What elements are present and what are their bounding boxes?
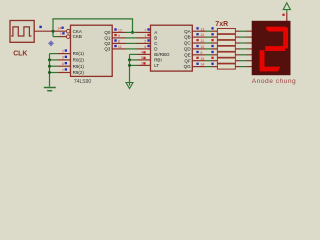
svg-text:LT: LT bbox=[154, 63, 159, 68]
svg-text:9: 9 bbox=[200, 51, 202, 55]
resistor R3 input state square (high) bbox=[211, 39, 213, 41]
QA-QG pin numbers bbox=[200, 27, 204, 66]
svg-text:13: 13 bbox=[200, 27, 204, 31]
svg-text:QA: QA bbox=[184, 29, 191, 34]
row QC wire bbox=[192, 42, 205, 44]
pin 9 QE state square (low) bbox=[196, 51, 198, 53]
pin C state square (low) bbox=[147, 39, 149, 41]
resistor R1 bbox=[217, 29, 235, 34]
CKA clock bubble bbox=[66, 29, 70, 33]
svg-text:R9(2): R9(2) bbox=[73, 70, 85, 75]
svg-text:Q0: Q0 bbox=[104, 30, 111, 35]
svg-text:6: 6 bbox=[144, 45, 146, 49]
svg-text:14: 14 bbox=[57, 27, 61, 31]
pin 6 state square bbox=[65, 62, 67, 64]
segment a bbox=[266, 27, 286, 32]
junction at clock wire bbox=[52, 30, 55, 33]
wire RBI bbox=[130, 59, 138, 61]
U2 pin labels right bbox=[184, 29, 192, 69]
svg-text:7: 7 bbox=[144, 29, 146, 33]
pin 11 state square (low) bbox=[114, 45, 116, 47]
wire R0(1) bbox=[50, 53, 59, 55]
resistor R6 input state square (high) bbox=[211, 57, 213, 59]
U2 74LS47 body bbox=[151, 25, 193, 71]
wire clock to CKA bbox=[34, 30, 66, 32]
pin 1 state square bbox=[62, 32, 64, 34]
svg-text:8: 8 bbox=[118, 40, 120, 44]
svg-text:11: 11 bbox=[200, 39, 204, 43]
power arrow (down) for BI/RBI/LT bbox=[126, 83, 133, 89]
row QA wire bbox=[192, 30, 205, 32]
U1 pin labels right bbox=[104, 30, 111, 52]
resistor R7 input state square (low) bbox=[211, 63, 213, 65]
ground symbol bbox=[44, 88, 56, 91]
wire Q2 to C bbox=[112, 42, 125, 44]
resistor R7 bbox=[217, 64, 235, 69]
svg-text:11: 11 bbox=[118, 45, 122, 49]
pin A state square (low) bbox=[147, 28, 149, 30]
pin 15 QF state square (high) bbox=[196, 57, 198, 59]
row QE wire bbox=[192, 54, 205, 56]
svg-text:10: 10 bbox=[200, 45, 204, 49]
svg-text:74LS90: 74LS90 bbox=[74, 79, 91, 85]
svg-text:QD: QD bbox=[184, 47, 192, 52]
svg-text:QG: QG bbox=[184, 64, 192, 69]
svg-text:R0(1): R0(1) bbox=[73, 51, 85, 56]
svg-text:A: A bbox=[154, 30, 157, 35]
wire top horizontal bbox=[52, 18, 133, 20]
U1 74LS90 body bbox=[71, 25, 113, 76]
pin numbers 12 9 8 11 bbox=[118, 29, 122, 50]
pin 2 state square bbox=[65, 49, 67, 51]
pin RBI state square (high) bbox=[143, 57, 145, 59]
svg-text:QF: QF bbox=[184, 58, 191, 63]
svg-text:15: 15 bbox=[200, 57, 204, 61]
svg-text:3: 3 bbox=[62, 56, 64, 60]
pin 14 state square bbox=[61, 27, 63, 29]
A-D pin numbers bbox=[144, 29, 146, 50]
junction RBI bbox=[128, 58, 131, 61]
svg-text:Q1: Q1 bbox=[104, 36, 111, 41]
svg-text:14: 14 bbox=[200, 63, 204, 67]
junction R0(2) bbox=[48, 58, 51, 61]
resistor R2 input state square (low) bbox=[211, 33, 213, 35]
segment d bbox=[261, 67, 280, 72]
resistor R3 bbox=[217, 40, 235, 45]
svg-text:12: 12 bbox=[200, 33, 204, 37]
segment e bbox=[260, 50, 265, 71]
svg-text:QE: QE bbox=[184, 52, 191, 57]
svg-text:2: 2 bbox=[144, 40, 146, 44]
wire down to Q0 node bbox=[132, 19, 134, 33]
svg-text:12: 12 bbox=[118, 29, 122, 33]
svg-text:QC: QC bbox=[184, 41, 192, 46]
row QG wire bbox=[192, 66, 205, 68]
svg-text:R9(1): R9(1) bbox=[73, 64, 85, 69]
junction at Q0 wire bbox=[131, 31, 134, 34]
resistor R1 input state square (low) bbox=[211, 27, 213, 29]
resistor R5 bbox=[217, 52, 235, 57]
pin 11 QC state square (high) bbox=[196, 39, 198, 41]
resistor R5 input state square (low) bbox=[211, 51, 213, 53]
svg-text:2: 2 bbox=[62, 49, 64, 53]
wire CKB stub bbox=[53, 36, 59, 38]
U1 pin labels left bbox=[73, 29, 85, 75]
junction R9(2) bbox=[48, 71, 51, 74]
wire CKB net green vertical bbox=[52, 19, 54, 37]
row QF wire bbox=[192, 60, 205, 62]
BI/RBO RBI LT power net vertical bbox=[129, 54, 131, 85]
wire R9(2) bbox=[50, 72, 59, 74]
pin 12 state square (low) bbox=[114, 28, 116, 30]
node origin diamond marker bbox=[49, 41, 54, 46]
7-segment display body bbox=[252, 21, 291, 75]
pin 12 QB state square (low) bbox=[196, 33, 198, 35]
pin 14 QG state square (low) bbox=[196, 63, 198, 65]
ground bus for R pins bbox=[49, 54, 51, 87]
wire R0(2) bbox=[50, 59, 59, 61]
svg-text:1: 1 bbox=[144, 34, 146, 38]
segment g bbox=[265, 46, 285, 51]
svg-text:7: 7 bbox=[62, 68, 64, 72]
resistor R6 bbox=[217, 58, 235, 63]
wire R9(1) bbox=[50, 65, 59, 67]
pin 3 state square bbox=[65, 56, 67, 58]
wire Q1 to B bbox=[112, 37, 125, 39]
CKB clock bubble bbox=[66, 35, 70, 39]
pin 7 state square bbox=[65, 68, 67, 70]
svg-text:BI/RBO: BI/RBO bbox=[154, 52, 170, 57]
clock terminal state square (blue) bbox=[39, 26, 41, 28]
svg-text:R0(2): R0(2) bbox=[73, 58, 85, 63]
wire Q0 to A bbox=[112, 31, 125, 33]
pin 10 QD state square (low) bbox=[196, 45, 198, 47]
resistor R4 input state square (low) bbox=[211, 45, 213, 47]
svg-text:RBI: RBI bbox=[154, 58, 162, 63]
power arrow (up) for display anode bbox=[283, 3, 290, 13]
pin BI/RBO state square (high) bbox=[143, 51, 145, 53]
svg-text:6: 6 bbox=[62, 62, 64, 66]
U2 pin labels left bbox=[154, 30, 170, 68]
row QD wire bbox=[192, 48, 205, 50]
svg-text:9: 9 bbox=[118, 34, 120, 38]
anode state square (high) bbox=[282, 14, 284, 16]
svg-text:B: B bbox=[154, 36, 157, 41]
svg-text:3: 3 bbox=[141, 62, 143, 66]
wire Q3 to D bbox=[112, 48, 125, 50]
svg-text:QB: QB bbox=[184, 35, 191, 40]
pin B state square (high) bbox=[147, 34, 149, 36]
clock generator CLK box bbox=[10, 21, 34, 43]
svg-text:CLK: CLK bbox=[13, 50, 27, 57]
svg-text:4: 4 bbox=[141, 51, 143, 55]
svg-text:Q2: Q2 bbox=[104, 41, 111, 46]
junction LT bbox=[128, 64, 131, 67]
resistor network rows QA-QG bbox=[192, 29, 252, 34]
svg-text:CKA: CKA bbox=[73, 29, 82, 34]
svg-text:7xR: 7xR bbox=[215, 21, 228, 28]
resistor R4 bbox=[217, 46, 235, 51]
svg-text:1: 1 bbox=[60, 32, 62, 36]
wire LT bbox=[130, 64, 138, 66]
pin 9 state square (high) bbox=[114, 34, 116, 36]
svg-text:5: 5 bbox=[141, 56, 143, 60]
svg-text:Anode chung: Anode chung bbox=[252, 78, 296, 85]
pin 8 state square (low) bbox=[114, 39, 116, 41]
pin D state square (low) bbox=[147, 45, 149, 47]
svg-text:CKB: CKB bbox=[73, 34, 82, 39]
pin 13 state square (low) bbox=[196, 27, 198, 29]
resistor R2 bbox=[217, 34, 235, 39]
row QB wire bbox=[192, 36, 205, 38]
junction R9(1) bbox=[48, 65, 51, 68]
segment b bbox=[283, 28, 288, 49]
wire BI/RBO bbox=[130, 53, 138, 55]
BI RBI LT pin numbers bbox=[141, 51, 143, 66]
svg-text:Q3: Q3 bbox=[104, 47, 111, 52]
pin LT state square (high) bbox=[143, 62, 145, 64]
wire anode to display bbox=[286, 13, 288, 22]
